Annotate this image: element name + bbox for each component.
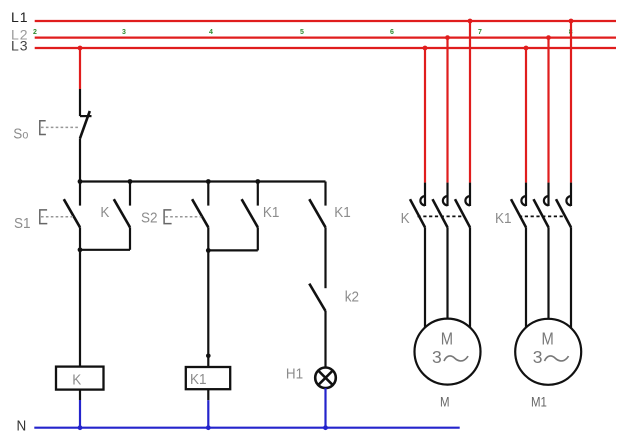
wire K1 to k2 bbox=[324, 227, 326, 288]
node N lamp bbox=[323, 425, 328, 430]
svg-text:K: K bbox=[401, 210, 410, 227]
wire pole1 K1 to motor M1 bbox=[525, 227, 527, 327]
wire S0 to branch node bbox=[79, 138, 81, 181]
wire red L3 to S0 bbox=[79, 48, 81, 89]
rail N bbox=[34, 427, 459, 429]
branch bus wire bbox=[80, 180, 326, 182]
svg-text:6: 6 bbox=[390, 29, 394, 36]
junction L2 pole2 K1 bbox=[546, 35, 551, 40]
wire L2 to contactor K pole2 bbox=[446, 38, 448, 183]
wire S0 top bbox=[79, 89, 81, 116]
wire k2 to lamp bbox=[324, 311, 326, 367]
rail L2 bbox=[35, 36, 616, 38]
wire pole1 K to motor M bbox=[424, 227, 426, 327]
wire L2 to contactor K1 pole2 bbox=[547, 38, 549, 183]
wire coil K to N bbox=[79, 390, 81, 400]
node branch S2 bbox=[206, 179, 211, 184]
node branch K bbox=[128, 179, 133, 184]
wire node to coil K bbox=[79, 250, 81, 366]
svg-text:3: 3 bbox=[533, 347, 543, 367]
svg-text:3: 3 bbox=[122, 29, 126, 36]
svg-text:N: N bbox=[17, 418, 27, 435]
junction L3 pole1 K1 bbox=[524, 46, 529, 51]
svg-text:7: 7 bbox=[478, 29, 482, 36]
svg-text:L3: L3 bbox=[11, 38, 29, 54]
junction L1 pole3 K bbox=[468, 19, 473, 24]
node S2 bottom bbox=[206, 248, 211, 253]
contactor K main contacts bbox=[410, 183, 470, 228]
motor M1 bbox=[515, 319, 581, 385]
motor M bbox=[415, 319, 481, 385]
junction L2 pole2 K bbox=[445, 35, 450, 40]
svg-text:M: M bbox=[441, 329, 453, 349]
node N coil K1 bbox=[206, 425, 211, 430]
svg-text:L1: L1 bbox=[11, 9, 29, 25]
contact S1 (NO pushbutton) bbox=[64, 182, 80, 250]
wire L3 to contactor K1 pole1 bbox=[525, 48, 527, 183]
rail L1 bbox=[35, 20, 616, 22]
svg-text:H1: H1 bbox=[286, 366, 303, 383]
coil K bbox=[56, 367, 104, 390]
svg-text:4: 4 bbox=[209, 29, 213, 36]
wire node to coil K1 bbox=[207, 250, 209, 366]
junction L1 pole3 K1 bbox=[569, 19, 574, 24]
contact K (NO auxiliary) bbox=[114, 182, 130, 250]
contact K1 (NO lamp branch) bbox=[309, 182, 325, 228]
svg-text:S: S bbox=[13, 126, 22, 143]
svg-text:K1: K1 bbox=[190, 371, 207, 388]
node line S1-K bbox=[80, 249, 130, 251]
node branch S1 bbox=[78, 179, 83, 184]
contact S2 (NO pushbutton) bbox=[192, 182, 208, 251]
wire L1 to contactor K pole3 bbox=[469, 21, 471, 183]
svg-text:S1: S1 bbox=[14, 215, 31, 232]
node line S2-K1 bbox=[208, 249, 257, 251]
svg-text:k2: k2 bbox=[345, 289, 359, 306]
svg-text:2: 2 bbox=[33, 29, 37, 36]
wire L1 to contactor K1 pole3 bbox=[570, 21, 572, 183]
svg-text:K1: K1 bbox=[334, 204, 351, 221]
node S1 bottom bbox=[78, 247, 83, 252]
svg-text:K1: K1 bbox=[495, 210, 512, 227]
actuator S0 bbox=[40, 121, 80, 135]
svg-text:3: 3 bbox=[432, 347, 442, 367]
svg-text:M: M bbox=[542, 329, 554, 349]
wire lamp to N bbox=[324, 388, 326, 428]
wire pole3 K to motor M bbox=[469, 227, 471, 327]
wire pole2 K to motor M bbox=[446, 227, 448, 318]
svg-text:K: K bbox=[100, 204, 109, 221]
contact K1 (NO auxiliary hold) bbox=[242, 182, 258, 251]
junction above coil K1 bbox=[206, 354, 211, 359]
lamp H1 bbox=[315, 368, 336, 389]
node N coil K bbox=[78, 425, 83, 430]
wire pole3 K1 to motor M1 bbox=[570, 227, 572, 327]
wire L3 to contactor K pole1 bbox=[424, 48, 426, 183]
coil K1 bbox=[186, 367, 230, 389]
svg-text:M: M bbox=[440, 393, 450, 409]
contact k2 (NO) bbox=[309, 284, 325, 311]
junction L3 pole1 K bbox=[423, 46, 428, 51]
svg-text:5: 5 bbox=[300, 29, 304, 36]
svg-text:o: o bbox=[22, 129, 28, 142]
node branch K1 bbox=[255, 179, 260, 184]
svg-text:K: K bbox=[72, 372, 81, 389]
svg-text:K1: K1 bbox=[263, 204, 280, 221]
svg-text:S2: S2 bbox=[141, 210, 158, 227]
svg-text:M1: M1 bbox=[531, 393, 547, 409]
contact S0 (NC pushbutton) bbox=[80, 111, 92, 138]
junction L3 control bbox=[78, 46, 83, 51]
wire pole2 K1 to motor M1 bbox=[547, 227, 549, 319]
actuator S1 bbox=[40, 210, 73, 224]
actuator S2 bbox=[164, 210, 201, 224]
wire coil K1 to N bbox=[207, 389, 209, 400]
rail L3 bbox=[35, 47, 616, 49]
contactor K1 main contacts bbox=[511, 183, 571, 228]
